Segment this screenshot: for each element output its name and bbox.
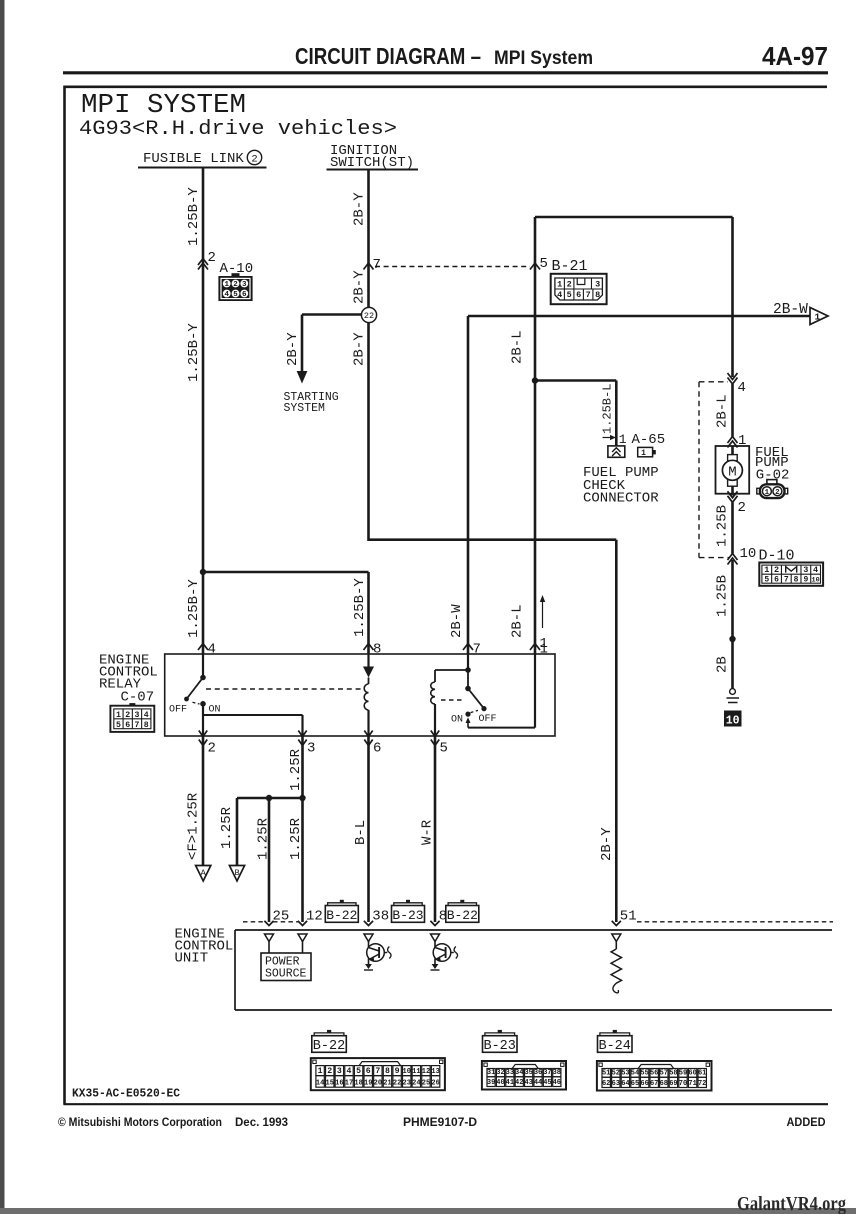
svg-text:CONNECTOR: CONNECTOR <box>583 491 659 507</box>
svg-text:2: 2 <box>251 154 257 166</box>
svg-text:61: 61 <box>698 1070 706 1078</box>
svg-text:63: 63 <box>612 1080 620 1088</box>
svg-text:4A-97: 4A-97 <box>762 43 828 71</box>
svg-text:3: 3 <box>595 279 600 289</box>
svg-text:1.25B-L: 1.25B-L <box>601 384 615 434</box>
svg-text:5: 5 <box>233 291 238 299</box>
svg-text:2: 2 <box>233 281 238 289</box>
svg-text:8: 8 <box>794 575 799 584</box>
svg-text:57: 57 <box>660 1070 668 1078</box>
svg-text:2B: 2B <box>715 656 731 673</box>
svg-text:CIRCUIT DIAGRAM –: CIRCUIT DIAGRAM – <box>295 43 481 69</box>
svg-text:10: 10 <box>740 546 757 562</box>
svg-text:15: 15 <box>326 1080 334 1088</box>
svg-text:12: 12 <box>422 1068 430 1076</box>
svg-text:UNIT: UNIT <box>175 951 209 967</box>
svg-text:4: 4 <box>347 1067 352 1076</box>
svg-text:11: 11 <box>412 1068 420 1076</box>
svg-text:5: 5 <box>116 721 121 730</box>
svg-text:51: 51 <box>620 909 637 925</box>
svg-text:4: 4 <box>208 642 216 658</box>
svg-text:45: 45 <box>543 1079 551 1087</box>
svg-text:1.25B-Y: 1.25B-Y <box>186 187 202 246</box>
svg-text:25: 25 <box>273 909 290 925</box>
svg-text:G-02: G-02 <box>756 468 790 484</box>
svg-text:OFF: OFF <box>169 705 187 716</box>
svg-text:B: B <box>234 868 239 878</box>
svg-text:1.25R: 1.25R <box>288 817 304 860</box>
svg-text:SOURCE: SOURCE <box>265 968 307 981</box>
svg-text:1.25B-Y: 1.25B-Y <box>186 579 202 638</box>
svg-text:58: 58 <box>669 1070 677 1078</box>
svg-text:62: 62 <box>602 1080 610 1088</box>
svg-text:9: 9 <box>395 1067 400 1076</box>
svg-text:5: 5 <box>440 741 448 757</box>
svg-text:5: 5 <box>764 575 769 584</box>
svg-text:SYSTEM: SYSTEM <box>284 402 326 415</box>
svg-text:ON: ON <box>451 715 463 726</box>
svg-text:20: 20 <box>374 1080 382 1088</box>
svg-text:2: 2 <box>775 489 780 497</box>
svg-text:4: 4 <box>144 711 149 720</box>
svg-text:C-07: C-07 <box>121 690 155 706</box>
svg-text:2B-W: 2B-W <box>449 604 465 638</box>
svg-text:68: 68 <box>660 1080 668 1088</box>
svg-text:1: 1 <box>557 279 562 289</box>
svg-text:40: 40 <box>496 1079 504 1087</box>
svg-text:ON: ON <box>209 705 221 716</box>
svg-text:25: 25 <box>422 1080 430 1088</box>
svg-text:4: 4 <box>557 290 562 300</box>
svg-text:1.25B: 1.25B <box>715 505 731 547</box>
svg-text:26: 26 <box>431 1080 439 1088</box>
svg-text:B-22: B-22 <box>313 1039 345 1054</box>
svg-text:67: 67 <box>650 1080 658 1088</box>
svg-text:16: 16 <box>335 1080 343 1088</box>
svg-text:53: 53 <box>621 1070 629 1078</box>
svg-text:2B-L: 2B-L <box>509 604 525 638</box>
svg-text:4: 4 <box>738 380 746 396</box>
svg-text:M: M <box>728 464 736 480</box>
svg-text:17: 17 <box>345 1080 353 1088</box>
svg-text:PHME9107-D: PHME9107-D <box>403 1115 477 1129</box>
svg-text:7: 7 <box>135 721 140 730</box>
svg-text:7: 7 <box>375 1067 380 1076</box>
svg-text:37: 37 <box>543 1069 551 1077</box>
svg-text:10: 10 <box>812 576 820 584</box>
svg-text:2: 2 <box>774 565 779 575</box>
svg-text:39: 39 <box>487 1079 495 1087</box>
svg-text:60: 60 <box>688 1070 696 1078</box>
svg-text:GalantVR4.org: GalantVR4.org <box>737 1193 846 1214</box>
svg-text:8: 8 <box>595 290 600 300</box>
svg-text:1.25B-Y: 1.25B-Y <box>352 578 368 637</box>
svg-text:56: 56 <box>650 1070 658 1078</box>
svg-text:2B-Y: 2B-Y <box>351 192 367 226</box>
svg-text:6: 6 <box>242 291 247 299</box>
svg-text:9: 9 <box>803 575 808 584</box>
svg-text:18: 18 <box>354 1080 362 1088</box>
svg-text:MPI System: MPI System <box>494 48 593 69</box>
svg-text:69: 69 <box>669 1080 677 1088</box>
svg-text:3: 3 <box>242 281 247 289</box>
svg-text:23: 23 <box>403 1080 411 1088</box>
svg-text:3: 3 <box>803 565 808 575</box>
svg-text:10: 10 <box>403 1068 411 1076</box>
svg-text:54: 54 <box>631 1070 639 1078</box>
svg-text:32: 32 <box>496 1069 504 1077</box>
svg-text:6: 6 <box>576 290 581 300</box>
svg-text:B-22: B-22 <box>447 908 478 923</box>
svg-text:36: 36 <box>534 1069 542 1077</box>
svg-text:19: 19 <box>364 1080 372 1088</box>
svg-text:24: 24 <box>412 1080 420 1088</box>
svg-text:Dec. 1993: Dec. 1993 <box>235 1117 288 1129</box>
svg-text:3: 3 <box>135 711 140 720</box>
svg-text:1.25B-Y: 1.25B-Y <box>186 323 202 382</box>
svg-text:2: 2 <box>208 741 216 757</box>
svg-text:2B-Y: 2B-Y <box>351 332 367 366</box>
svg-text:21: 21 <box>383 1080 391 1088</box>
svg-text:44: 44 <box>534 1079 542 1087</box>
svg-text:2B-Y: 2B-Y <box>599 827 615 861</box>
svg-text:W-R: W-R <box>420 819 436 845</box>
svg-text:1: 1 <box>116 711 121 720</box>
svg-text:2: 2 <box>327 1067 332 1076</box>
svg-text:7: 7 <box>784 575 789 584</box>
svg-text:2B-Y: 2B-Y <box>285 332 301 366</box>
svg-text:71: 71 <box>688 1080 696 1088</box>
svg-text:MPI SYSTEM: MPI SYSTEM <box>81 91 246 121</box>
svg-text:35: 35 <box>524 1069 532 1077</box>
svg-text:3: 3 <box>337 1067 342 1076</box>
svg-text:8: 8 <box>373 642 381 658</box>
svg-text:1.25B: 1.25B <box>715 575 731 617</box>
svg-text:6: 6 <box>366 1067 371 1076</box>
svg-text:B-23: B-23 <box>392 908 423 923</box>
svg-text:2: 2 <box>567 279 572 289</box>
svg-text:7: 7 <box>373 257 381 273</box>
svg-text:1: 1 <box>765 489 770 497</box>
svg-text:5: 5 <box>540 256 548 272</box>
svg-text:3: 3 <box>307 741 315 757</box>
svg-text:33: 33 <box>506 1069 514 1077</box>
svg-text:7: 7 <box>473 642 481 658</box>
svg-text:55: 55 <box>640 1070 648 1078</box>
svg-text:2: 2 <box>738 500 746 516</box>
svg-text:ADDED: ADDED <box>787 1115 826 1129</box>
svg-text:12: 12 <box>306 909 323 925</box>
svg-text:2B-L: 2B-L <box>509 330 525 364</box>
svg-text:1.25R: 1.25R <box>288 748 304 791</box>
svg-text:2B-Y: 2B-Y <box>351 270 367 304</box>
svg-text:A-65: A-65 <box>632 432 666 448</box>
svg-text:5: 5 <box>567 290 572 300</box>
svg-text:22: 22 <box>364 311 374 321</box>
svg-text:6: 6 <box>373 741 381 757</box>
svg-text:43: 43 <box>524 1079 532 1087</box>
svg-text:65: 65 <box>631 1080 639 1088</box>
svg-text:B-21: B-21 <box>552 258 588 275</box>
svg-text:7: 7 <box>586 290 591 300</box>
svg-text:22: 22 <box>393 1080 401 1088</box>
svg-text:4: 4 <box>813 565 818 575</box>
svg-text:4: 4 <box>224 291 229 299</box>
svg-text:46: 46 <box>553 1079 561 1087</box>
svg-text:34: 34 <box>515 1069 523 1077</box>
svg-text:41: 41 <box>506 1079 514 1087</box>
svg-text:59: 59 <box>679 1070 687 1078</box>
svg-text:1: 1 <box>318 1067 323 1076</box>
svg-text:B-22: B-22 <box>326 908 357 923</box>
svg-text:2B-L: 2B-L <box>715 394 731 428</box>
svg-text:70: 70 <box>679 1080 687 1088</box>
svg-text:8: 8 <box>385 1067 390 1076</box>
svg-text:© Mitsubishi Motors Corporatio: © Mitsubishi Motors Corporation <box>58 1117 222 1129</box>
svg-text:1: 1 <box>619 432 627 447</box>
svg-text:5: 5 <box>356 1067 361 1076</box>
svg-text:6: 6 <box>125 721 130 730</box>
svg-text:1: 1 <box>641 449 646 458</box>
svg-text:38: 38 <box>553 1069 561 1077</box>
svg-text:4G93<R.H.drive vehicles>: 4G93<R.H.drive vehicles> <box>79 118 397 141</box>
svg-text:72: 72 <box>698 1080 706 1088</box>
svg-text:10: 10 <box>726 714 740 727</box>
svg-text:31: 31 <box>487 1069 495 1077</box>
svg-text:1: 1 <box>224 281 229 289</box>
svg-text:OFF: OFF <box>479 714 497 725</box>
svg-text:52: 52 <box>612 1070 620 1078</box>
svg-text:B-L: B-L <box>353 820 369 845</box>
svg-text:1: 1 <box>815 312 821 323</box>
svg-text:51: 51 <box>602 1070 610 1078</box>
svg-text:14: 14 <box>316 1080 324 1088</box>
svg-text:KX35-AC-E0520-EC: KX35-AC-E0520-EC <box>72 1087 180 1101</box>
svg-text:6: 6 <box>774 575 779 584</box>
svg-text:1: 1 <box>540 642 548 658</box>
svg-text:B-23: B-23 <box>483 1039 515 1054</box>
svg-text:42: 42 <box>515 1079 523 1087</box>
svg-text:<F>1.25R: <F>1.25R <box>186 792 202 860</box>
svg-text:1.25R: 1.25R <box>219 806 235 849</box>
svg-text:38: 38 <box>372 909 389 925</box>
svg-text:2: 2 <box>125 711 130 720</box>
svg-text:FUSIBLE LINK: FUSIBLE LINK <box>143 151 244 167</box>
svg-text:B-24: B-24 <box>598 1039 630 1054</box>
svg-text:2B-W: 2B-W <box>773 302 808 318</box>
svg-text:1: 1 <box>764 565 769 575</box>
svg-text:2: 2 <box>208 250 216 266</box>
svg-text:A: A <box>201 868 207 878</box>
svg-text:1.25R: 1.25R <box>255 817 271 860</box>
svg-text:8: 8 <box>144 721 149 730</box>
svg-text:13: 13 <box>431 1068 439 1076</box>
svg-text:66: 66 <box>640 1080 648 1088</box>
svg-text:64: 64 <box>621 1080 629 1088</box>
